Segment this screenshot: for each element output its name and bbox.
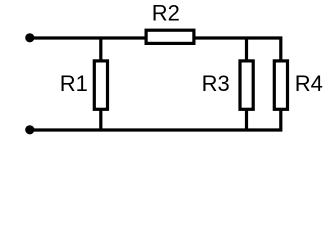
resistor R2 [146, 30, 194, 43]
wire bottom rail with corner up to R4 [30, 110, 281, 130]
node terminal dot top-left [25, 33, 34, 42]
wire top rail left segment [30, 36, 146, 39]
wire tap from top rail down to R1 [99, 38, 102, 60]
resistor R3 [240, 61, 253, 109]
svg-text:R1: R1 [60, 71, 88, 96]
wire tap from top rail down to R3 [245, 38, 248, 60]
svg-text:R2: R2 [152, 0, 180, 25]
resistor R4 [274, 61, 287, 109]
wire top rail right segment with corner down to R4 [194, 38, 281, 60]
wire stub R1 bottom to bottom rail [99, 110, 102, 130]
svg-text:R4: R4 [295, 71, 323, 96]
wire stub R3 bottom to bottom rail [245, 110, 248, 130]
svg-text:R3: R3 [202, 71, 230, 96]
node terminal dot bottom-left [25, 125, 34, 134]
resistor R1 [94, 61, 107, 109]
